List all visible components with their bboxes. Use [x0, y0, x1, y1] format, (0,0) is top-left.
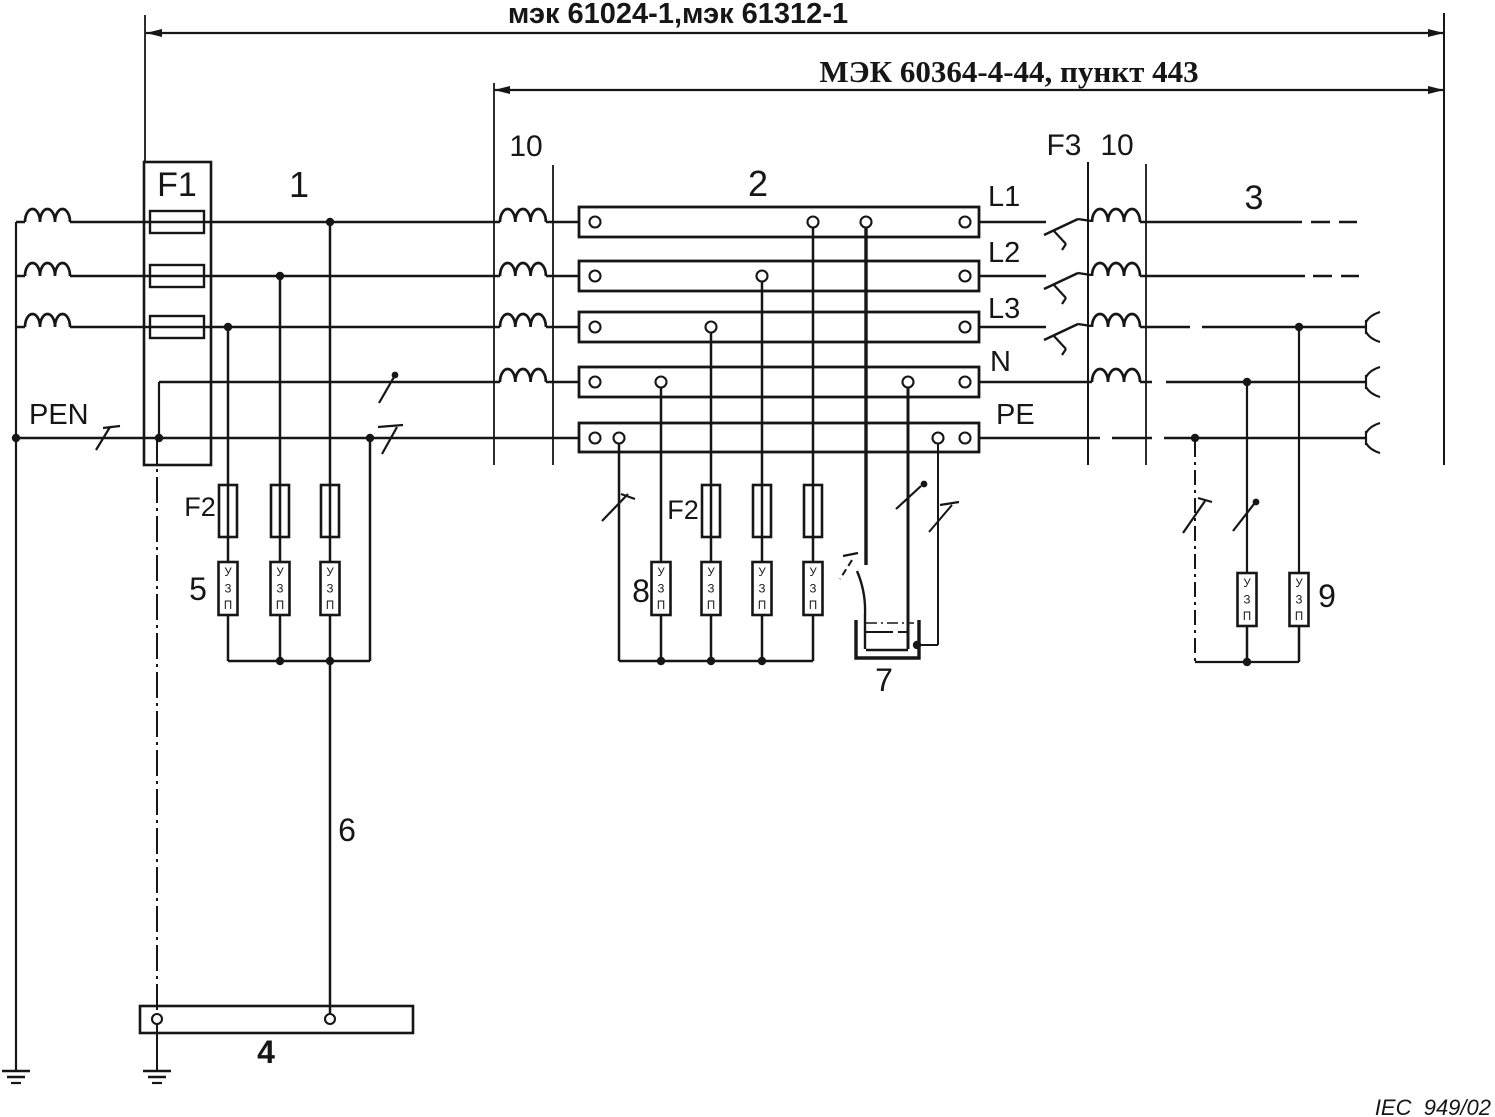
svg-text:З: З — [1296, 595, 1303, 607]
decoupling inductor 10-N — [500, 369, 546, 382]
slash mark on PE drop (9) — [1183, 501, 1205, 533]
wire L3 (to load) — [1140, 326, 1190, 329]
node PEN/N split junction — [155, 434, 163, 442]
svg-text:L2: L2 — [988, 237, 1020, 269]
dimension line D2 (МЭК 60364-4-44 zone) — [494, 89, 1444, 91]
decoupling inductor 10-L3 — [500, 314, 546, 327]
zone 10 left inner boundary — [552, 165, 554, 465]
SPD УЗП 5-1 — [219, 562, 238, 615]
svg-text:F1: F1 — [157, 166, 197, 204]
fuse F2 (8-3) — [753, 485, 771, 537]
node SPD9-1 on earth wire — [1243, 658, 1251, 666]
node N tap for SPD group 9 — [1243, 378, 1251, 386]
svg-text:З: З — [1244, 595, 1251, 607]
wire N (F1 to decoupler) — [159, 381, 500, 384]
svg-text:П: П — [809, 600, 817, 612]
svg-text:2: 2 — [748, 163, 768, 204]
terminal on bar 4 (right) — [325, 1014, 335, 1024]
wire L3 (busbar to F3) — [979, 326, 1046, 329]
svg-text:У: У — [1243, 578, 1251, 590]
svg-text:П: П — [326, 600, 334, 612]
extension line mid (D2) / zone 10 left boundary — [493, 83, 495, 465]
svg-text:4: 4 — [257, 1034, 275, 1070]
node PEN-left junction — [12, 434, 20, 442]
ground (left supply earth) — [2, 1070, 30, 1073]
svg-text:5: 5 — [189, 571, 207, 607]
svg-text:10: 10 — [509, 130, 542, 163]
svg-text:У: У — [758, 567, 766, 579]
switch F3-1 — [1044, 219, 1078, 235]
wire drop L2 to SPD8-3 — [761, 281, 764, 562]
fuse F1-1 (L1) — [150, 211, 204, 233]
test cell liquid level (solid) — [866, 631, 911, 633]
ground (main earth electrode) — [143, 1070, 171, 1073]
svg-text:З: З — [658, 584, 665, 596]
svg-text:N: N — [990, 346, 1011, 378]
decoupling inductor 10-L1 — [500, 209, 546, 222]
source inductor L3 — [16, 326, 25, 329]
svg-text:У: У — [707, 567, 715, 579]
wire L3 (source to decoupler) — [70, 326, 500, 329]
wire bar 4 to earth — [156, 1024, 158, 1071]
SPD УЗП 9-2 — [1290, 573, 1309, 626]
terminal on busbar L1 x=595 — [590, 217, 601, 228]
load terminal L3 — [1366, 312, 1380, 342]
svg-text:F3: F3 — [1046, 129, 1081, 162]
svg-text:У: У — [809, 567, 817, 579]
wire SPD9-1 to earth wire — [1246, 626, 1249, 662]
svg-text:П: П — [657, 600, 665, 612]
svg-text:L3: L3 — [988, 293, 1020, 325]
wire PE (busbar to load) — [979, 437, 1100, 440]
wire drop L2 to SPD5-2 — [279, 276, 282, 562]
decoupling inductor 10R-N — [1092, 369, 1140, 382]
slash mark on N drop (9) — [1233, 504, 1254, 531]
wire SPD8-2 to earth wire — [710, 615, 713, 661]
source inductor L2 — [16, 275, 25, 278]
svg-text:З: З — [225, 584, 232, 596]
SPD УЗП 9-1 — [1238, 573, 1257, 626]
dimension line D1 (МЭК 61024-1, МЭК 61312-1 zone) — [146, 32, 1444, 34]
test cell liquid level (dash-dot) — [866, 622, 914, 624]
fuse F2 (8-4) — [804, 485, 822, 537]
svg-text:У: У — [276, 567, 284, 579]
terminal on busbar L2 x=762 — [757, 271, 768, 282]
busbar L3 — [579, 312, 979, 342]
switch F3-3 — [1044, 324, 1078, 340]
decoupling inductor 10R-L2 — [1092, 263, 1140, 276]
switch F3-2 — [1044, 273, 1078, 289]
wire drop PE to SPD9 earth wire — [1194, 442, 1196, 662]
wire SPD5-2 to earth bar — [279, 615, 282, 661]
svg-text:У: У — [224, 567, 232, 579]
load terminal N — [1366, 367, 1380, 397]
fuse box F1 outline — [144, 162, 211, 465]
extension line right (D1/D2) — [1443, 13, 1445, 465]
svg-text:З: З — [759, 584, 766, 596]
fuse F2 (5-3) — [321, 485, 339, 537]
wire L3 (decoupler to busbar) — [546, 326, 579, 329]
terminal on busbar PE x=965 — [960, 433, 971, 444]
wire SPD9-2 to earth wire — [1298, 626, 1301, 662]
wire drop N to SPD9-1 — [1246, 382, 1248, 573]
node L3 tap for SPD group 9 — [1295, 323, 1303, 331]
wire drop PE to SPD8 earth wire — [618, 443, 621, 661]
fuse F2 (5-1) — [219, 485, 237, 537]
zone F3 boundary — [1087, 162, 1089, 465]
wire L2 (decoupler to busbar) — [546, 275, 579, 278]
fuse F1-3 (L3) — [150, 316, 204, 338]
svg-text:3: 3 — [1245, 179, 1264, 217]
main earthing bar 4 — [140, 1006, 413, 1033]
svg-text:П: П — [1243, 611, 1251, 623]
svg-text:6: 6 — [338, 812, 356, 848]
terminal on busbar L1 x=813 — [808, 217, 819, 228]
fuse F2 (5-2) — [271, 485, 289, 537]
node L2 tap for SPD group 5 — [276, 272, 284, 280]
wire drop N to SPD8-1 — [660, 387, 663, 562]
terminal on busbar N x=965 — [960, 377, 971, 388]
wire L2 (source to decoupler) — [70, 275, 500, 278]
wire L2 (busbar to F3) — [979, 275, 1046, 278]
terminal on busbar L3 x=711 — [706, 322, 717, 333]
source inductor L1 — [16, 221, 25, 224]
wire L1 (busbar to F3) — [979, 221, 1046, 224]
terminal on bar 4 (left) — [152, 1014, 162, 1024]
SPD УЗП 5-2 — [271, 562, 290, 615]
svg-text:З: З — [810, 584, 817, 596]
svg-text:1: 1 — [289, 164, 309, 205]
slash mark on N conductor — [379, 377, 394, 403]
terminal on busbar L1 x=965 — [960, 217, 971, 228]
SPD УЗП 5-3 — [321, 562, 340, 615]
left supply riser (PEN source bus) — [15, 222, 17, 1070]
wire L1 (to installation, dashed end) — [1140, 221, 1302, 224]
wire L2 (to installation, dashed end) — [1140, 275, 1305, 278]
PEN earthing conductor (to main earth bar) — [156, 438, 158, 1014]
T-slash mark on PEN (right) — [378, 425, 403, 427]
zone 10 right inner boundary — [1145, 164, 1147, 465]
wire SPD8-4 to earth wire — [812, 615, 815, 661]
terminal on busbar N x=661 — [656, 377, 667, 388]
svg-text:IEC 949/02: IEC 949/02 — [1375, 1095, 1491, 1117]
svg-text:З: З — [277, 584, 284, 596]
wire L1 (decoupler to busbar) — [546, 221, 579, 224]
svg-text:П: П — [276, 600, 284, 612]
svg-text:П: П — [758, 600, 766, 612]
wire drop N to test cell — [907, 387, 910, 649]
terminal on busbar L3 x=965 — [960, 322, 971, 333]
SPD group 8 common earth wire — [619, 660, 813, 662]
wire drop L1 to SPD8-4 — [812, 227, 815, 562]
wire drop L1 to SPD5-3 — [329, 222, 332, 562]
fuse F2 (8-2) — [702, 485, 720, 537]
svg-text:мэк 61024-1,мэк 61312-1: мэк 61024-1,мэк 61312-1 — [508, 0, 848, 30]
load terminal PE — [1366, 423, 1380, 453]
decoupling inductor 10-L2 — [500, 263, 546, 276]
svg-text:7: 7 — [875, 662, 893, 698]
node SPD5-3 on earth wire — [326, 657, 334, 665]
terminal on busbar L2 x=965 — [960, 271, 971, 282]
wire SPD5-1 to earth bar — [227, 615, 230, 661]
svg-text:У: У — [1295, 578, 1303, 590]
busbar PE — [579, 423, 979, 452]
busbar L2 — [579, 261, 979, 291]
wire drop PE to test cell — [937, 443, 939, 645]
svg-text:МЭК 60364-4-44, пункт 443: МЭК 60364-4-44, пункт 443 — [819, 54, 1198, 89]
terminal on busbar L1 x=866 — [861, 217, 872, 228]
node SPD5-2 on earth wire — [276, 657, 284, 665]
node PE tap for SPD group 9 — [1191, 434, 1199, 442]
terminal on busbar PE x=938 — [933, 433, 944, 444]
fuse F1-2 (L2) — [150, 265, 204, 287]
decoupling inductor 10R-L1 — [1092, 209, 1140, 222]
node L3 tap for SPD group 5 — [224, 323, 232, 331]
busbar N — [579, 367, 979, 397]
svg-text:8: 8 — [632, 573, 650, 609]
svg-text:F2: F2 — [667, 495, 699, 525]
wire N (busbar to decoupler) — [979, 381, 1092, 384]
slash mark on PEN (left) — [96, 427, 110, 450]
node SPD8-1 on earth wire — [657, 657, 665, 665]
wire SPD8-1 to earth wire — [660, 615, 663, 661]
svg-text:П: П — [707, 600, 715, 612]
svg-text:П: П — [224, 600, 232, 612]
svg-text:З: З — [708, 584, 715, 596]
svg-text:У: У — [657, 567, 665, 579]
wire N (decoupler to busbar) — [546, 381, 579, 384]
svg-text:П: П — [1295, 611, 1303, 623]
svg-text:PE: PE — [996, 399, 1035, 431]
svg-text:PEN: PEN — [29, 399, 89, 431]
node PEN tap for SPD group 5 return — [366, 434, 374, 442]
terminal on busbar N x=908 — [903, 377, 914, 388]
slash mark on PE drop — [602, 494, 628, 521]
wire drop L1 to test switch — [864, 227, 867, 565]
extension line left (D1) — [144, 15, 146, 163]
test cell 7 (electrolytic cup) — [856, 620, 919, 658]
test switch blade (7) — [843, 553, 858, 556]
wire N (to load) — [1140, 381, 1152, 384]
node L1 tap for SPD group 5 — [326, 218, 334, 226]
wire SPD8-3 to earth wire — [761, 615, 764, 661]
slash mark on N drop (7) — [896, 486, 921, 509]
svg-text:У: У — [326, 567, 334, 579]
terminal on busbar L2 x=595 — [590, 271, 601, 282]
node SPD8-2 on earth wire — [707, 657, 715, 665]
svg-text:10: 10 — [1100, 129, 1133, 162]
SPD group 5 common earth wire — [228, 660, 370, 663]
test cell inner bottom — [866, 649, 908, 651]
wire N tap inside F1 — [158, 382, 160, 438]
SPD УЗП 8-2 — [702, 562, 721, 615]
wire PEN (to F1 and busbar) — [16, 437, 579, 440]
SPD УЗП 8-1 — [652, 562, 671, 615]
node SPD8-3 on earth wire — [758, 657, 766, 665]
svg-text:З: З — [327, 584, 334, 596]
busbar L1 — [579, 207, 979, 237]
wire drop L3 to SPD8-2 — [710, 332, 713, 562]
SPD УЗП 8-4 — [804, 562, 823, 615]
svg-text:9: 9 — [1318, 578, 1336, 614]
terminal on busbar PE x=619 — [614, 433, 625, 444]
wire SPD5-3 to earth bar — [329, 615, 332, 661]
terminal on busbar N x=595 — [590, 377, 601, 388]
wire drop L3 to SPD9-2 — [1298, 327, 1300, 573]
node test cell to PE junction — [913, 641, 921, 649]
svg-text:F2: F2 — [184, 492, 216, 522]
decoupling inductor 10R-L3 — [1092, 314, 1140, 327]
T-slash mark on PE drop (7) — [940, 502, 959, 505]
SPD УЗП 8-3 — [753, 562, 772, 615]
terminal on busbar L3 x=595 — [590, 322, 601, 333]
terminal on busbar PE x=595 — [590, 433, 601, 444]
wire SPD group 5 return to PEN — [369, 438, 372, 661]
svg-text:L1: L1 — [988, 181, 1020, 213]
wire L1 (source to decoupler) — [70, 221, 500, 224]
wire drop L3 to SPD5-1 — [227, 327, 230, 562]
wire test cell to PE drop — [917, 644, 938, 646]
earthing conductor 6 (SPD5 to earth bar) — [329, 661, 332, 1014]
SPD group 9 common earth wire — [1195, 661, 1299, 663]
